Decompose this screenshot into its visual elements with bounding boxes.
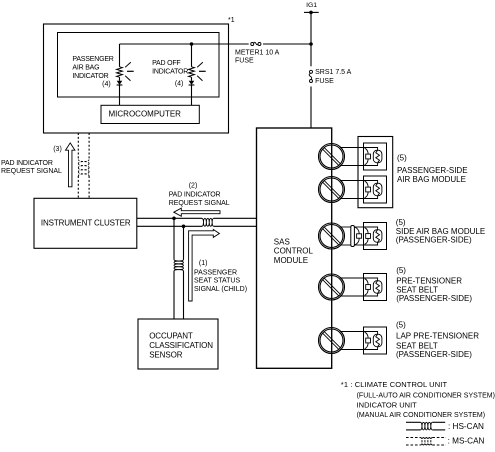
svg-text:PAD OFF: PAD OFF (152, 60, 180, 67)
junction bus upper (172, 217, 176, 221)
svg-text:(FULL-AUTO AIR CONDITIONER SYS: (FULL-AUTO AIR CONDITIONER SYSTEM) (357, 392, 495, 399)
svg-text:(5): (5) (397, 154, 407, 163)
svg-text:SEAT STATUS: SEAT STATUS (194, 278, 240, 285)
svg-text:(PASSENGER-SIDE): (PASSENGER-SIDE) (396, 294, 472, 303)
wire side air bag squib leads (340, 227, 364, 245)
svg-text:LAP PRE-TENSIONER: LAP PRE-TENSIONER (396, 332, 479, 341)
squib side air bag squib (364, 223, 387, 250)
junction pad-off branch (190, 42, 194, 46)
fuse SRS1 7.5A (309, 69, 351, 85)
svg-text:INSTRUMENT CLUSTER: INSTRUMENT CLUSTER (41, 219, 131, 228)
wire passenger air bag squib 2 leads (340, 181, 364, 199)
svg-text:INDICATOR: INDICATOR (72, 73, 108, 80)
svg-text:FUSE: FUSE (315, 78, 334, 85)
svg-text:(PASSENGER-SIDE): (PASSENGER-SIDE) (396, 350, 472, 359)
junction bus lower (182, 225, 186, 229)
label (5) passenger-side air bag module (397, 154, 468, 184)
svg-text:SAS: SAS (274, 237, 290, 246)
svg-text:AIR BAG MODULE: AIR BAG MODULE (397, 175, 466, 184)
passenger-side air bag module outer box (358, 137, 393, 208)
squib passenger air bag squib 1 (364, 143, 387, 170)
label passenger air bag indicator (4) (72, 56, 113, 88)
connector circle side air bag squib (319, 223, 345, 249)
node IG1 (304, 2, 319, 14)
svg-text:IG1: IG1 (306, 2, 317, 9)
svg-text:*1 : CLIMATE CONTROL UNIT: *1 : CLIMATE CONTROL UNIT (341, 380, 448, 389)
connector circle passenger air bag squib 2 (319, 177, 345, 203)
fuse METER1 10A (235, 42, 280, 65)
svg-text:(5): (5) (396, 321, 406, 330)
twisted pair HS-CAN (202, 218, 214, 226)
svg-text:CONTROL: CONTROL (274, 247, 314, 256)
lamp passenger air bag indicator (117, 44, 134, 105)
lamp pad off indicator (189, 44, 206, 105)
svg-text:(3): (3) (53, 146, 62, 153)
svg-text:SENSOR: SENSOR (149, 351, 183, 360)
svg-text:INDICATOR UNIT: INDICATOR UNIT (357, 400, 418, 409)
svg-text:CLASSIFICATION: CLASSIFICATION (149, 341, 213, 350)
wire HS-CAN bus lower (137, 225, 257, 227)
svg-text:PASSENGER: PASSENGER (72, 56, 113, 63)
svg-text:*1: *1 (228, 17, 235, 24)
label pad off indicator (4) (152, 60, 188, 88)
svg-text:(4): (4) (102, 81, 111, 88)
svg-text:REQUEST SIGNAL: REQUEST SIGNAL (1, 168, 62, 175)
label (1) passenger seat status signal (194, 260, 247, 293)
svg-text:PASSENGER-SIDE: PASSENGER-SIDE (397, 166, 468, 175)
wire HS-CAN bus upper (137, 217, 257, 219)
squib pre-tensioner squib (364, 274, 387, 301)
svg-text:PRE-TENSIONER: PRE-TENSIONER (396, 277, 462, 286)
label (2) pad indicator request signal (169, 182, 230, 207)
svg-text:(PASSENGER-SIDE): (PASSENGER-SIDE) (396, 236, 472, 245)
wire passenger air bag squib 1 leads (340, 148, 364, 166)
wire IG1 feed to indicators (120, 43, 312, 45)
svg-text:MICROCOMPUTER: MICROCOMPUTER (109, 109, 182, 118)
legend MS-CAN symbol (406, 437, 485, 446)
svg-text:INDICATOR: INDICATOR (152, 68, 188, 75)
svg-text:SRS1 7.5 A: SRS1 7.5 A (315, 69, 352, 76)
arrow signal (2) left (174, 208, 220, 216)
wire pre-tensioner squib leads (340, 278, 364, 296)
inline connector side air bag (351, 226, 362, 247)
svg-text:METER1 10 A: METER1 10 A (235, 50, 280, 57)
connector circle passenger air bag squib 1 (319, 144, 345, 170)
wire MS-CAN pair to cluster (dashed) (78, 133, 89, 198)
legend HS-CAN symbol (406, 422, 484, 431)
svg-text:MODULE: MODULE (274, 256, 308, 265)
label (5) pre-tensioner seat belt (396, 266, 472, 303)
svg-text:PASSENGER: PASSENGER (194, 269, 237, 276)
wire SRS1 to SAS module (310, 87, 312, 129)
svg-text:(5): (5) (396, 266, 406, 275)
label (3) pad indicator request signal (1, 146, 62, 175)
svg-text:OCCUPANT: OCCUPANT (149, 331, 193, 340)
svg-text:AIR BAG: AIR BAG (72, 65, 99, 72)
indicator panel inner box (58, 33, 220, 98)
svg-text:(MANUAL AIR CONDITIONER SYSTEM: (MANUAL AIR CONDITIONER SYSTEM) (357, 412, 485, 419)
footnote *1 climate control unit (341, 380, 495, 419)
arrow signal (3) up (66, 143, 75, 187)
svg-text:PAD INDICATOR: PAD INDICATOR (1, 160, 53, 167)
connector circle pre-tensioner squib (319, 274, 345, 300)
instrument cluster box (34, 198, 137, 248)
svg-text:: MS-CAN: : MS-CAN (448, 437, 485, 446)
climate control / indicator unit box *1 (44, 17, 235, 133)
svg-text:(1): (1) (199, 260, 208, 267)
junction IG1 branch (309, 42, 313, 46)
occupant classification sensor box (138, 319, 218, 369)
squib passenger air bag squib 2 (364, 176, 387, 203)
wire IG1 vertical (310, 12, 312, 66)
label (5) lap pre-tensioner seat belt (396, 321, 479, 359)
svg-text:(5): (5) (396, 218, 406, 227)
svg-text:FUSE: FUSE (235, 58, 254, 65)
label (5) side air bag module (396, 218, 485, 245)
svg-text:REQUEST SIGNAL: REQUEST SIGNAL (169, 200, 230, 207)
wire lap pre-tensioner squib leads (340, 332, 364, 350)
connector circle lap pre-tensioner squib (319, 328, 345, 354)
SAS control module box (257, 128, 332, 368)
squib lap pre-tensioner squib (364, 327, 387, 354)
wire seat status pair (174, 218, 184, 319)
microcomputer U1 (101, 105, 199, 123)
svg-text:: HS-CAN: : HS-CAN (448, 422, 484, 431)
arrow signal (1) bent right (189, 230, 220, 302)
svg-text:(4): (4) (175, 80, 184, 87)
svg-text:(2): (2) (189, 182, 198, 189)
svg-text:SIGNAL (CHILD): SIGNAL (CHILD) (194, 286, 247, 293)
svg-text:PAD INDICATOR: PAD INDICATOR (169, 192, 221, 199)
